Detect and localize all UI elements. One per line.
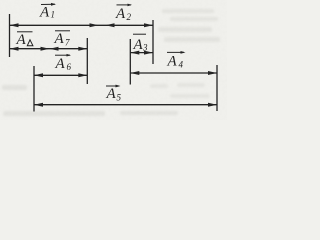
- extension line V1 (left datum, top): [9, 14, 11, 57]
- arrowhead A7 left: [50, 47, 59, 51]
- extension line V3 (right end of A7/A6): [86, 38, 88, 84]
- wire: dimension line A4: [130, 72, 217, 74]
- svg-text:3: 3: [142, 43, 148, 53]
- svg-text:A: A: [115, 6, 126, 22]
- wire: dimension line A3: [130, 52, 153, 54]
- wire: dimension line A-delta + A7: [10, 48, 88, 50]
- svg-text:4: 4: [179, 60, 184, 70]
- paper grain texture: [0, 0, 227, 120]
- arrowhead A2 left: [106, 23, 115, 27]
- extension line V5 (right end of A1-A2/A3): [152, 20, 154, 64]
- vector bar of label A4: [167, 51, 184, 53]
- svg-text:A: A: [54, 31, 65, 47]
- arrowhead A4 left: [130, 71, 139, 75]
- vector bar of label A-delta: [17, 31, 33, 33]
- vector bar of label A6: [55, 54, 70, 56]
- arrowhead A5 right: [208, 103, 217, 107]
- arrowhead A5 left: [34, 103, 43, 107]
- arrowhead A7 right: [78, 47, 87, 51]
- arrowhead A3 left: [130, 51, 139, 55]
- svg-text:A: A: [55, 56, 66, 72]
- svg-text:2: 2: [127, 12, 132, 22]
- arrowhead A1 right: [90, 23, 99, 27]
- wire: dimension line A1+A2: [10, 24, 154, 26]
- arrowhead A3 right: [144, 51, 153, 55]
- extension line V2 (left datum, bottom): [33, 66, 35, 112]
- wire: dimension line A5: [34, 104, 217, 106]
- arrowhead A4 right: [208, 71, 217, 75]
- vector bar of label A7: [55, 30, 70, 32]
- svg-text:5: 5: [117, 93, 122, 103]
- faint bleed-through smudge bottom-right: [150, 83, 210, 98]
- paper background: [0, 0, 227, 120]
- extension line V4 (left end of A3/A4): [129, 39, 131, 85]
- arrowhead A-delta right: [41, 47, 50, 51]
- faint bleed-through smudge top-right: [158, 9, 220, 42]
- svg-text:7: 7: [65, 38, 70, 48]
- vector bar of label A2: [117, 4, 132, 6]
- svg-text:A: A: [39, 5, 50, 21]
- arrowhead A2 right: [144, 23, 153, 27]
- vector bar of label A1: [41, 3, 55, 5]
- extension line V6 (right end of A4/A5): [216, 65, 218, 111]
- arrowhead A6 right: [78, 73, 87, 77]
- svg-text:1: 1: [51, 10, 56, 20]
- vector bar of label A5: [106, 85, 119, 87]
- svg-text:A: A: [167, 54, 178, 70]
- vector bar of label A3: [133, 33, 146, 35]
- arrowhead A1 left: [10, 23, 19, 27]
- svg-text:A: A: [133, 37, 144, 53]
- svg-text:A: A: [16, 32, 27, 48]
- arrowhead A-delta left: [10, 47, 19, 51]
- svg-text:6: 6: [67, 62, 72, 72]
- arrowhead A6 left: [34, 73, 43, 77]
- faint bleed-through smudge bottom-left: [2, 85, 178, 116]
- svg-text:A: A: [106, 86, 117, 102]
- subscript delta of A-delta: [27, 40, 33, 46]
- wire: dimension line A6: [34, 74, 87, 76]
